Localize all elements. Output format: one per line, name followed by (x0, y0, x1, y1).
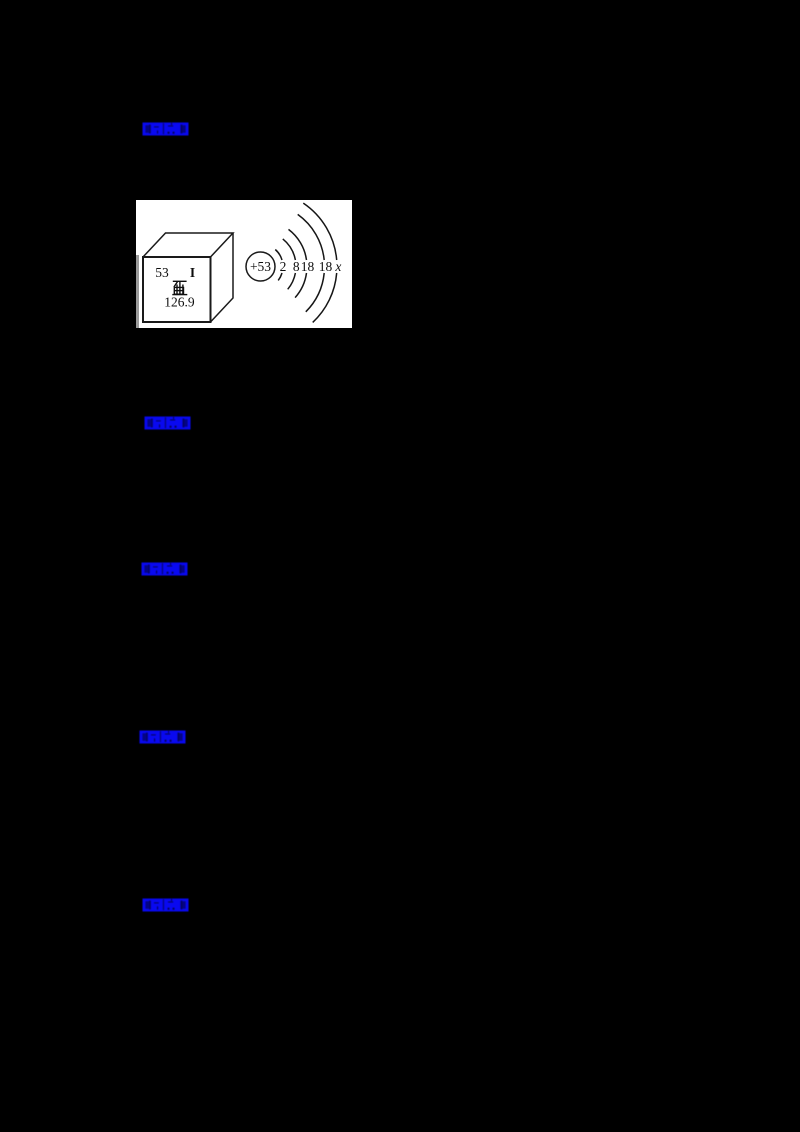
answer label 2 (144, 416, 191, 430)
svg-text:126.9: 126.9 (164, 294, 195, 309)
svg-text:18: 18 (319, 259, 333, 274)
answer label 4 (139, 730, 186, 744)
nucleus circle (246, 252, 275, 281)
image block: iodine element cube and atomic structure diagram (136, 200, 352, 328)
svg-text:I: I (190, 265, 195, 280)
svg-text:+53: +53 (250, 259, 271, 274)
cube top face (143, 233, 233, 257)
cube front face (143, 257, 211, 322)
svg-text:53: 53 (155, 265, 169, 280)
svg-text:18: 18 (301, 259, 315, 274)
svg-text:8: 8 (293, 259, 300, 274)
svg-text:2: 2 (280, 259, 287, 274)
cube right face (211, 233, 234, 322)
gray scan strip at left edge (136, 255, 139, 328)
white background of figure (136, 200, 352, 328)
shell electron counts (280, 259, 342, 274)
answer label 1 (142, 122, 189, 136)
electron shell arcs (275, 203, 336, 322)
svg-text:x: x (334, 259, 341, 274)
shared answer-label glyph definition (0, 0, 1, 1)
answer label 3 (141, 562, 188, 576)
element name glyph (dian / iodine) (172, 281, 187, 294)
answer label 5 (142, 898, 189, 912)
